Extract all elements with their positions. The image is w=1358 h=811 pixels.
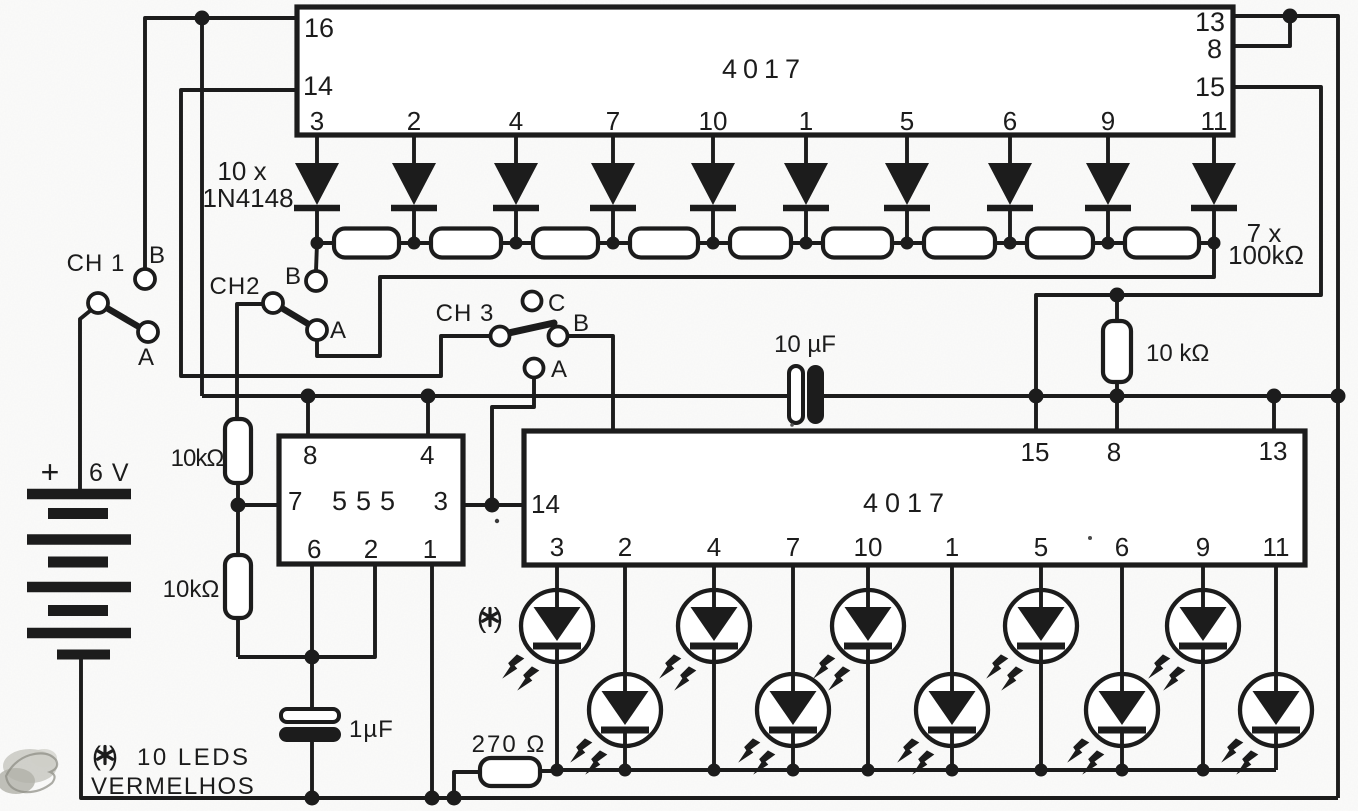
resistor 10k upper [225, 419, 251, 483]
junction 555 pin 4 on bus [421, 389, 436, 404]
pin 15 label [1195, 72, 1225, 102]
junction 10k bottom on bus [1110, 389, 1125, 404]
switch CH1 contact B [135, 269, 155, 289]
resistor 10k lower [225, 555, 251, 618]
svg-text:1: 1 [799, 106, 813, 136]
lower 4017 output pin 2 label [618, 532, 632, 562]
battery 6V cells [27, 494, 131, 655]
555 pin 1 label [423, 534, 437, 564]
diode D9 1N4148 (pin 9) [1085, 135, 1131, 243]
pin 13 label [1195, 7, 1225, 37]
lower 4017 output pin 5 label [1034, 532, 1048, 562]
resistor chain 100k #2 [431, 229, 501, 258]
LED 3 (pin 4) [655, 565, 750, 770]
svg-text:6: 6 [307, 534, 321, 564]
svg-text:9: 9 [1196, 532, 1210, 562]
diode D3 1N4148 (pin 4) [493, 135, 539, 243]
top 4017 output pin 2 label [407, 106, 421, 136]
svg-text:6: 6 [1003, 106, 1017, 136]
wire: 555 pin 8 stub [306, 396, 310, 436]
resistor chain 100k #1 [334, 229, 399, 258]
resistor chain 100k #9 [1125, 229, 1199, 258]
switch CH3 contact C [523, 292, 542, 311]
svg-text:10 µF: 10 µF [774, 331, 836, 358]
svg-text:1N4148: 1N4148 [202, 183, 293, 213]
svg-text:10 kΩ: 10 kΩ [1146, 340, 1209, 367]
555 pin 8 label [303, 440, 317, 470]
top 4017 output pin 9 label [1101, 106, 1115, 136]
lower 4017 output pin 4 label [707, 532, 721, 562]
wire: top 4017 pin 13 to right rail [1233, 16, 1338, 798]
lower 4017 pin 15 label [1021, 437, 1050, 467]
label CH 3 [436, 300, 495, 327]
switch CH3 contact B [549, 327, 568, 346]
note line 2: VERMELHOS [91, 773, 255, 800]
555 pin 7 label [288, 486, 302, 516]
label CH3 A [551, 356, 567, 383]
svg-text:15: 15 [1021, 437, 1050, 467]
555 pin 3 label [434, 486, 448, 516]
junction pin 1 on ground rail [425, 791, 440, 806]
wire: 10k bottom stub [1115, 382, 1119, 396]
svg-text:4: 4 [509, 106, 523, 136]
lower 4017 output pin 1 label [945, 532, 959, 562]
note line 1: (*) 10 LEDS [92, 741, 251, 771]
scan speck near 555 output [495, 519, 499, 523]
svg-text:): ) [494, 602, 503, 633]
junction chain node 1 [311, 237, 324, 250]
junction LED on cathode rail [708, 764, 721, 777]
svg-text:3: 3 [310, 106, 324, 136]
wire: ground rail [81, 657, 1338, 798]
svg-text:(: ( [477, 602, 487, 633]
svg-text:8: 8 [1107, 437, 1121, 467]
wire: 555 pin 1 to ground rail [430, 564, 434, 798]
junction LED on cathode rail [862, 764, 875, 777]
junction 270 ohm on ground rail [447, 791, 462, 806]
svg-text:VERMELHOS: VERMELHOS [91, 773, 255, 800]
lower 4017 output pin 3 label [550, 532, 564, 562]
wire: 555 pin 6 stub [310, 564, 314, 657]
switch CH3 lever [504, 323, 554, 334]
label CH2 [209, 273, 260, 300]
svg-text:555: 555 [332, 486, 404, 516]
svg-text:CH 3: CH 3 [436, 300, 495, 327]
label 7 x [1247, 218, 1282, 248]
diode D6 1N4148 (pin 1) [783, 135, 829, 243]
wire: divider column [236, 483, 240, 555]
IC lower 4017 body [524, 431, 1305, 565]
lower 4017 output pin 6 label [1115, 532, 1129, 562]
svg-text:1µF: 1µF [349, 716, 394, 743]
label 10k upper [171, 445, 224, 472]
555 pin 6 label [307, 534, 321, 564]
switch CH1 pole contact [88, 293, 108, 313]
wire: 100k divider chain [317, 241, 1214, 245]
diode D5 1N4148 (pin 10) [690, 135, 736, 243]
wire: 270 ohm left lead [454, 772, 480, 798]
label 100k ohm [1228, 240, 1304, 270]
label CH 1 [67, 250, 126, 277]
scan speck near lower 4017 [1088, 536, 1092, 540]
diode D8 1N4148 (pin 6) [987, 135, 1033, 243]
junction pin 6 node [305, 650, 320, 665]
junction right rail on bus [1331, 389, 1346, 404]
svg-text:CH 1: CH 1 [67, 250, 126, 277]
wire: main horizontal bus right of 10uF [822, 394, 1338, 398]
svg-text:6 V: 6 V [89, 459, 130, 487]
junction 1uF on ground rail [305, 791, 320, 806]
svg-text:16: 16 [304, 13, 334, 43]
switch CH1 contact A [138, 322, 158, 342]
junction 10k top on pin15 run [1110, 288, 1125, 303]
svg-text:A: A [138, 344, 154, 371]
label 1uF [349, 716, 394, 743]
wire: lower 4017 pin 13 stub [1272, 396, 1276, 431]
capacitor 10uF plate + [789, 366, 803, 423]
wire: 555 pin 4 stub [426, 396, 430, 436]
svg-text:3: 3 [550, 532, 564, 562]
junction LED on cathode rail [619, 764, 632, 777]
switch CH2 lever [275, 304, 315, 328]
svg-text:100kΩ: 100kΩ [1228, 240, 1304, 270]
wire: top 4017 pin 8 up to pin 13 [1233, 16, 1290, 46]
top 4017 output pin 1 label [799, 106, 813, 136]
switch CH2 pole contact [263, 293, 283, 313]
scan artifact smudge [0, 749, 57, 794]
svg-text:10: 10 [854, 532, 883, 562]
LED 2 (pin 2) [566, 565, 661, 778]
svg-text:A: A [551, 356, 567, 383]
label 1N4148 [202, 183, 293, 213]
junction divider tap [231, 498, 246, 513]
svg-text:2: 2 [618, 532, 632, 562]
wire: top 4017 pin 16 to CH1 contact B [145, 18, 299, 270]
resistor chain 100k #5 [730, 229, 791, 258]
svg-text:7: 7 [606, 106, 620, 136]
junction on pin-16 wire [195, 11, 210, 26]
svg-text:+: + [41, 454, 60, 490]
svg-text:7: 7 [786, 532, 800, 562]
lower 4017 output pin 7 label [786, 532, 800, 562]
svg-text:B: B [285, 263, 301, 290]
IC 555 body [279, 436, 463, 564]
junction chain node 2 [408, 237, 421, 250]
svg-text:(: ( [92, 741, 101, 771]
junction lower pin13 on bus [1267, 389, 1282, 404]
label battery 6 V [89, 459, 130, 487]
junction LED on cathode rail [1035, 764, 1048, 777]
svg-text:10: 10 [699, 106, 728, 136]
switch CH1 lever [100, 304, 146, 331]
svg-text:C: C [548, 290, 565, 317]
label CH3 C [548, 290, 565, 317]
resistor chain 100k #7 [924, 229, 995, 258]
pin 8 label [1207, 34, 1222, 64]
lower 4017 output pin 11 label [1263, 532, 1290, 562]
wire: divider bottom to pin2/pin6 run [236, 618, 240, 657]
LED 9 (pin 9) [1144, 565, 1239, 770]
label 10 x [217, 156, 266, 186]
svg-text:15: 15 [1195, 72, 1225, 102]
label battery + [41, 454, 60, 490]
label B chain terminal [285, 263, 301, 290]
terminal B of chain [306, 271, 326, 291]
wire: chain node to terminal B [316, 243, 317, 271]
switch CH3 contact A [525, 359, 544, 378]
wire: main horizontal bus left of 10uF [202, 394, 789, 398]
svg-text:11: 11 [1201, 106, 1228, 136]
lower 4017 pin 13 label [1259, 436, 1288, 466]
junction chain node 3 [510, 237, 523, 250]
junction pin15 riser on bus [1029, 389, 1044, 404]
svg-text:13: 13 [1259, 436, 1288, 466]
label 270 ohm [472, 731, 547, 758]
resistor chain 100k #3 [533, 229, 598, 258]
diode D2 1N4148 (pin 2) [391, 135, 437, 243]
svg-text:8: 8 [303, 440, 317, 470]
label 10 kOhm [1146, 340, 1209, 367]
wire: CH2 pole down to 10k [237, 304, 264, 419]
svg-text:1: 1 [423, 534, 437, 564]
wire: LED cathode rail [558, 768, 1276, 772]
svg-text:6: 6 [1115, 532, 1129, 562]
wire: 270 ohm right lead [540, 769, 558, 773]
wire: 555 pin 7 lead [238, 503, 281, 507]
capacitor 10uF plate - [807, 365, 824, 424]
svg-text:10 LEDS: 10 LEDS [137, 744, 251, 771]
junction 555 pin 8 on bus [301, 389, 316, 404]
svg-text:13: 13 [1195, 7, 1225, 37]
555 pin 4 label [420, 440, 434, 470]
svg-text:CH2: CH2 [209, 273, 260, 300]
wire: 1uF top lead [310, 657, 314, 711]
svg-text:4017: 4017 [722, 54, 806, 84]
top 4017 output pin 7 label [606, 106, 620, 136]
LED 4 (pin 7) [734, 565, 829, 778]
svg-text:2: 2 [407, 106, 421, 136]
junction chain node 10 [1208, 237, 1221, 250]
junction chain node 8 [1004, 237, 1017, 250]
wire: 1uF bottom lead [310, 740, 314, 798]
label 10uF [774, 331, 836, 358]
top 4017 part number [722, 54, 806, 84]
label 10k lower [163, 576, 220, 603]
wire: lower 4017 pin 8 stub [1115, 396, 1119, 431]
pin 14 label [303, 71, 333, 101]
wire: top 4017 pin 15 to lower 4017 pin 15 [1036, 87, 1321, 431]
top 4017 output pin 6 label [1003, 106, 1017, 136]
svg-text:9: 9 [1101, 106, 1115, 136]
svg-text:4017: 4017 [863, 488, 951, 518]
wire: net A from CH2 to divider end [317, 243, 1214, 356]
svg-text:B: B [573, 310, 589, 337]
svg-text:3: 3 [434, 486, 448, 516]
top 4017 output pin 3 label [310, 106, 324, 136]
svg-text:7: 7 [288, 486, 302, 516]
note asterisk near LED 1 [477, 602, 503, 633]
lower 4017 output pin 10 label [854, 532, 883, 562]
lower 4017 part number [863, 488, 951, 518]
capacitor 1uF plate top [281, 709, 339, 722]
svg-text:14: 14 [531, 489, 560, 519]
wire: 555 pin 2 stub [238, 564, 375, 657]
resistor chain 100k #4 [630, 229, 698, 258]
junction chain node 5 [707, 237, 720, 250]
lower 4017 pin 8 label [1107, 437, 1121, 467]
label CH3 B [573, 310, 589, 337]
diode D10 1N4148 (pin 11) [1191, 135, 1237, 243]
svg-text:10kΩ: 10kΩ [163, 576, 220, 603]
lower 4017 output pin 9 label [1196, 532, 1210, 562]
svg-text:1: 1 [945, 532, 959, 562]
junction pin13/pin8 tie [1283, 9, 1298, 24]
svg-text:A: A [330, 317, 346, 344]
LED 7 (pin 5) [982, 565, 1077, 770]
top 4017 output pin 11 label [1201, 106, 1228, 136]
pin 16 label [304, 13, 334, 43]
top 4017 output pin 4 label [509, 106, 523, 136]
scan speck below 4017 label [790, 423, 794, 427]
wire: 555 output pin 3 to lower 4017 pin 14 [463, 503, 526, 507]
svg-text:): ) [109, 741, 118, 771]
lower 4017 pin 14 label [531, 489, 560, 519]
switch CH3 pole contact [491, 327, 510, 346]
LED 5 (pin 10) [809, 565, 904, 770]
wire: top 4017 pin 14 run to CH3 pole [181, 90, 490, 376]
resistor chain 100k #6 [823, 229, 892, 258]
resistor 270 ohm [480, 758, 540, 786]
junction chain node 9 [1102, 237, 1115, 250]
wire: CH1 pole to battery + [80, 306, 96, 491]
switch CH2 contact A [307, 320, 327, 340]
LED 6 (pin 1) [893, 565, 988, 778]
LED 8 (pin 6) [1063, 565, 1158, 778]
label CH1 A [138, 344, 154, 371]
555 pin 2 label [364, 534, 378, 564]
svg-text:2: 2 [364, 534, 378, 564]
junction LED on cathode rail [787, 764, 800, 777]
LED 1 (pin 3) [498, 565, 593, 770]
top 4017 output pin 5 label [900, 106, 914, 136]
diode D4 1N4148 (pin 7) [590, 135, 636, 243]
svg-text:14: 14 [303, 71, 333, 101]
junction LED on cathode rail [1116, 764, 1129, 777]
LED 10 (pin 11) [1217, 565, 1312, 778]
label CH1 B [149, 242, 165, 269]
top 4017 output pin 10 label [699, 106, 728, 136]
junction LED on cathode rail [946, 764, 959, 777]
IC top 4017 body [297, 7, 1233, 135]
wire: CH3 throw A to 555 output node [492, 379, 534, 505]
wire: 10k top stub [1115, 295, 1119, 321]
junction chain node 6 [800, 237, 813, 250]
svg-text:5: 5 [900, 106, 914, 136]
junction LED on cathode rail [1197, 764, 1210, 777]
wire: +V branch down from pin-16 wire [200, 18, 204, 396]
diode D1 1N4148 (pin 3) [294, 135, 340, 243]
wire: CH3 throw B down to lower 4017 [566, 336, 613, 431]
svg-text:11: 11 [1263, 532, 1290, 562]
svg-text:8: 8 [1207, 34, 1222, 64]
junction chain node 7 [901, 237, 914, 250]
svg-text:5: 5 [1034, 532, 1048, 562]
svg-text:10 x: 10 x [217, 156, 266, 186]
svg-text:4: 4 [707, 532, 721, 562]
svg-text:B: B [149, 242, 165, 269]
capacitor 1uF plate bottom [279, 727, 341, 742]
diode D7 1N4148 (pin 5) [884, 135, 930, 243]
svg-text:10kΩ: 10kΩ [171, 445, 224, 472]
junction LED on cathode rail [551, 764, 564, 777]
junction 555 output node [485, 498, 500, 513]
555 part number [332, 486, 404, 516]
resistor chain 100k #8 [1027, 229, 1093, 258]
junction chain node 4 [607, 237, 620, 250]
svg-text:4: 4 [420, 440, 434, 470]
label CH2 A [330, 317, 346, 344]
resistor 10k (pin15 pull) [1103, 321, 1131, 382]
svg-text:270 Ω: 270 Ω [472, 731, 547, 758]
